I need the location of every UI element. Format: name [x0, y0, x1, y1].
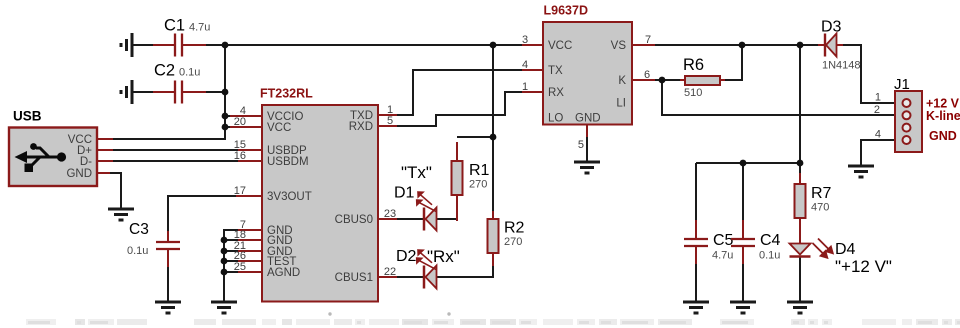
LED D1 "Tx" — [394, 163, 437, 231]
svg-text:5: 5 — [578, 139, 584, 151]
svg-text:D3: D3 — [821, 19, 842, 36]
capacitor C2 — [153, 62, 206, 104]
ground (left of C1) — [121, 33, 132, 57]
svg-text:23: 23 — [384, 208, 396, 220]
svg-text:AGND: AGND — [267, 267, 300, 279]
resistor R6 510 — [680, 56, 725, 99]
wire RXD(5) to RX(1) — [396, 92, 524, 126]
svg-text:VCC: VCC — [548, 40, 572, 52]
svg-text:20: 20 — [234, 116, 246, 128]
svg-text:4.7u: 4.7u — [712, 250, 733, 262]
svg-text:C3: C3 — [129, 221, 149, 238]
svg-text:7: 7 — [645, 34, 651, 46]
svg-text:R1: R1 — [469, 162, 490, 179]
svg-text:C1: C1 — [164, 17, 185, 35]
svg-text:K: K — [618, 75, 626, 87]
svg-text:USB: USB — [13, 109, 42, 124]
node junction GND bus pin 21 — [221, 248, 228, 255]
node junction +5V / VCC — [222, 124, 229, 131]
node junction VS / +12V rail — [797, 42, 804, 49]
connector J1 body — [894, 76, 922, 152]
svg-text:GND: GND — [929, 129, 957, 143]
svg-text:VCC: VCC — [267, 122, 291, 134]
svg-text:R2: R2 — [504, 220, 525, 237]
wire TXD(1) to TX(4) — [396, 70, 524, 115]
svg-text:510: 510 — [684, 87, 702, 99]
wire 3V3OUT to C3 — [168, 196, 245, 234]
capacitor C4 — [731, 220, 781, 264]
ground (under L9637D pin 5) — [574, 162, 600, 173]
ground (under FT232 GND bus) — [211, 302, 237, 313]
svg-text:1: 1 — [522, 81, 528, 93]
node junction VS / R6 — [739, 42, 746, 49]
LED D2 "Rx" — [396, 247, 460, 289]
svg-text:"+12 V": "+12 V" — [835, 257, 892, 276]
svg-text:RX: RX — [548, 87, 564, 99]
svg-text:C2: C2 — [154, 62, 175, 80]
wire D4 cathode to ground — [799, 257, 801, 301]
wire CBUS1 to D2 cathode — [396, 276, 423, 278]
cropped text residue at bottom edge — [26, 312, 960, 325]
svg-text:C4: C4 — [760, 232, 781, 249]
wire L9637D GND to ground — [586, 133, 588, 161]
wire R2 top lead — [492, 211, 494, 220]
svg-text:0.1u: 0.1u — [179, 67, 200, 79]
svg-text:D4: D4 — [835, 241, 856, 258]
wire C2 to +5V junction — [203, 91, 225, 93]
wire C4 to ground — [742, 253, 744, 301]
svg-text:R6: R6 — [683, 56, 704, 74]
USB connector body — [9, 109, 97, 187]
svg-text:3V3OUT: 3V3OUT — [267, 191, 312, 203]
node junction +5V / VCCIO — [222, 113, 229, 120]
svg-text:RXD: RXD — [349, 121, 373, 133]
svg-text:470: 470 — [811, 202, 829, 214]
wire +12V rail down to R7 — [799, 45, 801, 184]
pins FT232RL right 1/5/23/22 — [378, 115, 397, 277]
svg-text:L9637D: L9637D — [544, 4, 588, 18]
IC U2 L9637D body — [543, 4, 632, 125]
svg-text:K-line: K-line — [926, 109, 960, 123]
wire K pin to R6 — [654, 79, 680, 81]
wire VCC branch — [225, 126, 243, 128]
wire VS rail to D3 anode side — [654, 44, 818, 46]
svg-text:J1: J1 — [894, 76, 910, 93]
wire ground to C1 — [132, 44, 158, 46]
L9637D right pin names — [611, 40, 627, 110]
USB trident symbol — [22, 148, 63, 166]
node junction K net — [659, 77, 666, 84]
resistor R1 270 — [452, 142, 490, 195]
wire ground to C2 — [132, 91, 158, 93]
svg-text:D-: D- — [80, 156, 92, 168]
svg-text:22: 22 — [384, 266, 396, 278]
wire VCCIO branch — [225, 115, 243, 117]
wire C1 to +5V junction — [203, 44, 225, 46]
IC U1 FT232RL body — [260, 87, 378, 302]
wire +5V vertical rail to USB VCC — [112, 45, 225, 139]
FT232RL right pin numbers — [384, 104, 396, 278]
wire +5V rail to L9637D VCC — [225, 44, 522, 46]
svg-text:R7: R7 — [811, 185, 832, 202]
wire C5/C4 top rail — [696, 162, 800, 164]
wire C5 top lead — [695, 163, 697, 231]
capacitor C1 — [153, 17, 210, 57]
svg-text:270: 270 — [504, 236, 522, 248]
svg-text:D2: D2 — [396, 248, 417, 265]
node junction +5V rail / C1 — [222, 42, 229, 49]
svg-text:LI: LI — [616, 98, 626, 110]
svg-text:1: 1 — [875, 92, 881, 104]
svg-text:"Tx": "Tx" — [401, 163, 432, 182]
svg-text:GND: GND — [66, 168, 92, 180]
svg-text:GND: GND — [575, 113, 601, 125]
svg-text:270: 270 — [469, 179, 487, 191]
wire +5V drop to R2 — [492, 45, 494, 219]
svg-text:6: 6 — [644, 69, 650, 81]
wire K-line to J1 pin 2 — [662, 80, 903, 115]
pins L9637D left 3/4/1 — [522, 45, 543, 92]
pins FT232RL left 4/20/15/16/17/7/18/21/26/25 — [230, 116, 262, 272]
node junction GND bus pin 25 — [221, 269, 228, 276]
ground (under USB) — [108, 209, 134, 220]
svg-text:LO: LO — [548, 113, 563, 125]
wire D3 to J1 pin 1 — [843, 45, 903, 103]
ground (under C5) — [683, 302, 709, 313]
ground (under C4) — [730, 302, 756, 313]
svg-text:16: 16 — [234, 150, 246, 162]
svg-text:0.1u: 0.1u — [127, 245, 148, 257]
svg-text:"Rx": "Rx" — [427, 247, 460, 266]
LED D4 "+12 V" — [790, 218, 892, 276]
node junction +12V rail / C-rail — [797, 160, 804, 167]
svg-text:25: 25 — [234, 261, 246, 273]
svg-text:TX: TX — [548, 65, 563, 77]
svg-text:3: 3 — [522, 34, 528, 46]
wire C4 top lead — [742, 163, 744, 231]
svg-text:D1: D1 — [394, 185, 415, 202]
wire USB D- to USBDM — [110, 160, 245, 162]
svg-text:4: 4 — [875, 129, 881, 141]
ground (left of C2) — [121, 80, 132, 104]
capacitor C5 — [684, 220, 734, 264]
svg-text:CBUS0: CBUS0 — [335, 214, 373, 226]
wire R1 bottom lead — [456, 195, 458, 221]
pin L9637D bottom 5 — [586, 125, 588, 138]
USB pin names — [66, 134, 92, 180]
svg-text:4: 4 — [522, 59, 528, 71]
FT232RL left pin names — [267, 111, 312, 279]
J1 pin numbers 1/2/4 — [874, 92, 881, 141]
wire J1 pin 4 to ground — [861, 140, 903, 165]
svg-text:C5: C5 — [713, 232, 734, 249]
resistor R2 270 — [488, 219, 525, 266]
capacitor C3 — [127, 221, 180, 267]
ground (under D4) — [787, 302, 813, 313]
pins USB VCC/D+/D-/GND — [97, 139, 113, 173]
node junction +5V rail / R1-R2 drop — [490, 42, 497, 49]
svg-text:CBUS1: CBUS1 — [335, 272, 373, 284]
node junction C4 rail — [740, 160, 747, 167]
wire R6 to VS rail — [725, 45, 742, 80]
wire R1 top to +5V drop — [457, 136, 493, 138]
svg-text:FT232RL: FT232RL — [260, 87, 313, 101]
wire C3 to ground — [167, 256, 169, 301]
svg-text:USBDM: USBDM — [267, 156, 309, 168]
resistor R7 470 — [795, 173, 832, 218]
svg-text:2: 2 — [874, 104, 880, 116]
node junction GND bus pin 26 — [221, 258, 228, 265]
ground (under C3) — [155, 302, 181, 313]
diode D3 1N4148 — [818, 19, 861, 72]
svg-text:VS: VS — [611, 40, 627, 52]
wire USB D+ to USBDP — [110, 149, 245, 151]
ground (under J1 pin 4) — [848, 166, 874, 177]
wire D2 anode to R2 — [436, 253, 493, 277]
wire CBUS0 to D1 cathode — [396, 218, 423, 220]
FT232RL right pin names — [335, 110, 373, 284]
wire FT232 GND/TEST/AGND bus — [224, 230, 245, 301]
J1 pin sockets — [903, 99, 911, 144]
svg-text:4.7u: 4.7u — [189, 22, 210, 34]
L9637D pin numbers — [522, 34, 651, 151]
wire C5 to ground — [695, 253, 697, 301]
node junction R1 / R2 drop — [490, 134, 497, 141]
svg-text:1N4148: 1N4148 — [822, 60, 861, 72]
wire USB GND to ground — [108, 173, 121, 208]
svg-text:17: 17 — [234, 185, 246, 197]
L9637D pin names — [548, 40, 601, 125]
node junction GND bus pin 18 — [221, 237, 228, 244]
FT232RL left pin numbers — [234, 105, 246, 273]
node junction +5V rail / C2 — [222, 89, 229, 96]
svg-text:0.1u: 0.1u — [759, 250, 780, 262]
wire D1 anode to R1 — [436, 218, 457, 220]
svg-text:5: 5 — [387, 115, 393, 127]
pins L9637D right 7/6 — [632, 45, 655, 80]
